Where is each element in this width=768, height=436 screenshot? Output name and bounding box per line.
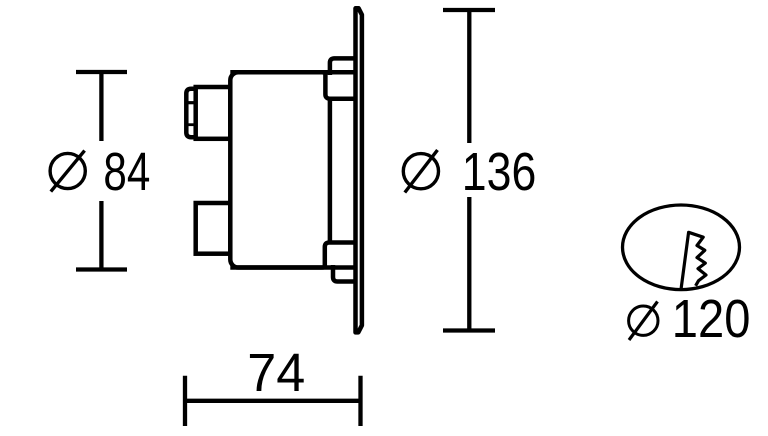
svg-text:84: 84 — [103, 142, 150, 202]
svg-text:74: 74 — [247, 343, 305, 403]
svg-text:136: 136 — [462, 142, 537, 202]
svg-text:120: 120 — [672, 289, 751, 349]
